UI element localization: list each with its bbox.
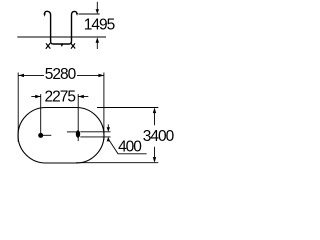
svg-text:5280: 5280 xyxy=(45,66,77,83)
svg-text:400: 400 xyxy=(118,139,142,156)
svg-text:2275: 2275 xyxy=(45,89,76,106)
svg-text:3400: 3400 xyxy=(143,128,175,145)
svg-text:1495: 1495 xyxy=(84,17,115,34)
